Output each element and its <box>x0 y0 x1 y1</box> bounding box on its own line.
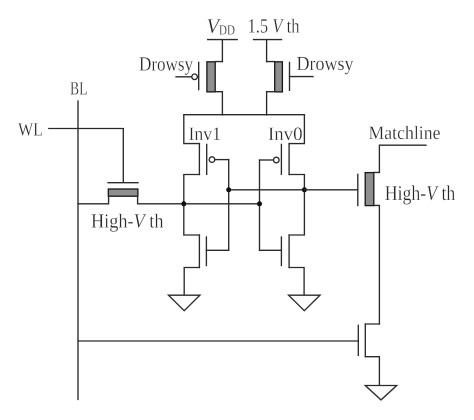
svg-text:Drowsy: Drowsy <box>139 54 193 76</box>
transistor drowsy PMOS left channel bar <box>207 62 215 92</box>
svg-text:High-V th: High-V th <box>91 211 164 233</box>
transistor matchline High-Vth channel bar <box>365 173 374 206</box>
transistor drowsy PMOS left gate bubble <box>192 74 198 80</box>
svg-text:WL: WL <box>18 119 43 140</box>
transistor P1 gate line <box>206 144 208 174</box>
wire node B from BL to Inv0 gate <box>78 196 260 204</box>
wire N1 gate lead <box>206 249 228 251</box>
transistor eval gate line <box>357 325 359 355</box>
svg-text:DD: DD <box>219 24 235 39</box>
transistor P0 Inv0 PMOS body <box>289 115 304 190</box>
transistor drowsy right source/drain wires <box>267 62 275 115</box>
transistor P0 channel <box>288 144 290 175</box>
svg-text:High-V th: High-V th <box>385 181 456 205</box>
wire BL to eval gate <box>78 340 358 342</box>
transistor N0 channel <box>288 235 290 268</box>
transistor P1 channel <box>198 144 200 175</box>
junction dot node B right <box>257 201 262 206</box>
transistor N0 gate line <box>280 237 282 266</box>
ground under Inv1 <box>169 295 200 311</box>
ground under Inv0 <box>289 295 320 311</box>
transistor matchline gate line <box>357 174 359 205</box>
junction dot node B left <box>181 201 186 206</box>
transistor drowsy right channel bar <box>275 62 283 92</box>
transistor drowsy PMOS left gate line <box>198 62 200 89</box>
transistor P0 gate line <box>280 144 282 174</box>
svg-text:BL: BL <box>70 79 88 100</box>
svg-text:1.5 V th: 1.5 V th <box>248 16 300 38</box>
wire Matchline <box>379 145 426 172</box>
junction dot node A left <box>226 187 231 192</box>
junction dot node A right <box>302 187 307 192</box>
transistor P0 gate bubble <box>274 157 280 163</box>
wire 1.5Vth rail <box>254 40 282 62</box>
op-amp n/a : transistor P1 Inv1 PMOS body <box>184 115 200 204</box>
svg-text:Inv1: Inv1 <box>189 124 222 145</box>
wire P0 bubble lead <box>260 159 274 161</box>
wire drowsy right gate lead <box>290 76 314 78</box>
transistor matchline source/drain wires <box>374 172 380 324</box>
transistor eval NMOS body <box>365 324 379 385</box>
wire P1 bubble lead <box>215 159 229 161</box>
wire WL horizontal and drop to access gate <box>49 129 124 182</box>
transistor eval channel <box>364 324 366 357</box>
transistor access High-Vth gate bar <box>108 182 138 184</box>
wire Inv0 input vertical <box>259 160 261 250</box>
wire drowsy left gate lead <box>176 76 192 78</box>
transistor access High-Vth channel <box>108 189 138 196</box>
wire matchline gate lead from node A <box>304 189 357 191</box>
svg-text:Inv0: Inv0 <box>268 124 303 145</box>
transistor N1 Inv1 NMOS body <box>184 204 200 295</box>
ground under eval transistor <box>365 386 396 400</box>
wire BL vertical <box>77 101 79 400</box>
svg-text:Drowsy: Drowsy <box>297 53 354 75</box>
transistor N1 gate line <box>205 237 207 266</box>
wire latch top rail <box>184 114 305 116</box>
transistor N1 channel <box>198 235 200 268</box>
wire Inv1 input vertical <box>228 160 230 251</box>
wire VDD rail <box>208 40 238 62</box>
wire node A horizontal <box>229 189 305 191</box>
wire N0 gate lead <box>260 249 282 251</box>
transistor N0 Inv0 NMOS body <box>289 190 304 295</box>
transistor drowsy right gate line <box>289 62 291 90</box>
svg-text:Matchline: Matchline <box>369 123 441 144</box>
transistor drowsy PMOS left source/drain wires <box>215 62 222 115</box>
transistor P1 gate bubble <box>209 157 215 163</box>
